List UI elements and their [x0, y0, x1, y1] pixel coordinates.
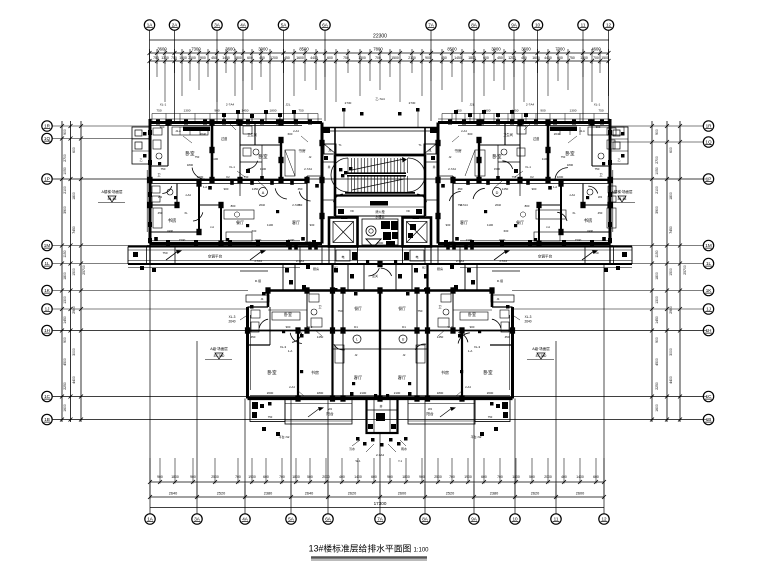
- svg-text:W4: W4: [158, 195, 163, 199]
- svg-text:1800: 1800: [437, 391, 444, 395]
- elevator left: [329, 216, 358, 247]
- svg-text:J2-A: J2-A: [579, 129, 585, 133]
- side bay (bath balcony): [132, 127, 150, 164]
- svg-text:J2: J2: [355, 353, 358, 357]
- core lower rooms: [329, 247, 431, 265]
- title underline: [311, 556, 427, 559]
- svg-text:3900: 3900: [63, 206, 67, 214]
- svg-text:1500: 1500: [179, 56, 187, 60]
- svg-text:900: 900: [286, 325, 291, 329]
- svg-text:900: 900: [655, 129, 659, 135]
- svg-text:450: 450: [458, 187, 463, 191]
- svg-text:2600: 2600: [576, 492, 584, 496]
- bottom dimension lines: [150, 482, 604, 508]
- svg-text:750: 750: [593, 251, 598, 255]
- svg-text:厨房: 厨房: [437, 266, 443, 271]
- svg-text:1-A: 1-A: [288, 349, 293, 353]
- svg-text:1P: 1P: [44, 177, 50, 182]
- svg-text:87.380: 87.380: [536, 354, 547, 358]
- left axis lines: [53, 126, 708, 420]
- svg-text:450: 450: [505, 335, 510, 339]
- top dimension texts row2: [153, 56, 609, 60]
- svg-text:XL-1: XL-1: [525, 165, 531, 169]
- svg-text:客厅: 客厅: [292, 219, 300, 225]
- svg-text:W-2: W-2: [308, 325, 313, 329]
- svg-text:2-A4: 2-A4: [465, 385, 471, 389]
- corridor walls mid-wing: [438, 176, 610, 244]
- svg-text:6A: 6A: [325, 517, 332, 522]
- wing corridor blobs: [230, 181, 294, 185]
- svg-text:风: 风: [328, 149, 331, 153]
- svg-text:7800: 7800: [373, 47, 383, 52]
- right dimension ticks and texts: [650, 124, 687, 422]
- svg-text:1A: 1A: [147, 23, 154, 28]
- mid band fixtures: [255, 265, 503, 290]
- svg-text:1K: 1K: [44, 288, 51, 293]
- svg-text:1Q: 1Q: [44, 136, 51, 141]
- svg-text:2100: 2100: [360, 391, 367, 395]
- svg-text:2-7A4: 2-7A4: [226, 103, 235, 107]
- svg-text:2700: 2700: [655, 156, 659, 164]
- lower block interior verticals: [270, 291, 462, 399]
- svg-text:450: 450: [598, 211, 603, 215]
- svg-text:K2: K2: [530, 175, 534, 179]
- svg-text:4400: 4400: [72, 376, 76, 384]
- svg-text:W4: W4: [428, 407, 433, 411]
- svg-text:1800: 1800: [63, 272, 67, 280]
- svg-text:450: 450: [158, 211, 163, 215]
- svg-text:1L: 1L: [706, 261, 712, 266]
- svg-text:2640: 2640: [305, 492, 313, 496]
- svg-text:2-7A4: 2-7A4: [526, 103, 535, 107]
- svg-text:XL: XL: [184, 211, 188, 215]
- svg-text:XL-1: XL-1: [160, 103, 167, 107]
- svg-text:800: 800: [231, 204, 236, 208]
- svg-text:1600: 1600: [296, 56, 304, 60]
- svg-text:书房: 书房: [298, 148, 306, 153]
- right dimension lines: [652, 121, 680, 422]
- scattered leader lines: [183, 136, 577, 396]
- svg-text:1500: 1500: [669, 268, 673, 276]
- svg-text:J2-A: J2-A: [175, 129, 181, 133]
- svg-text:1P: 1P: [706, 177, 712, 182]
- svg-text:书房: 书房: [168, 217, 177, 224]
- svg-text:1800: 1800: [234, 56, 242, 60]
- wing interior partitions: [150, 123, 281, 181]
- svg-text:J4: J4: [261, 297, 264, 301]
- svg-text:750: 750: [195, 155, 200, 159]
- wing doors: [449, 161, 597, 221]
- svg-text:900: 900: [214, 109, 219, 113]
- svg-text:W4: W4: [598, 195, 603, 199]
- svg-text:600: 600: [288, 132, 293, 136]
- left dimension ticks and texts: [60, 124, 86, 422]
- svg-text:1Q: 1Q: [705, 140, 712, 145]
- svg-text:1K: 1K: [706, 288, 713, 293]
- wing top mini dimension row: [152, 103, 318, 122]
- lower block doors: [259, 319, 501, 350]
- svg-text:1500: 1500: [179, 238, 186, 242]
- wing extra room dim texts: [446, 163, 603, 233]
- svg-text:XL-1: XL-1: [594, 103, 601, 107]
- svg-text:玄关: 玄关: [372, 273, 378, 278]
- svg-text:1-A: 1-A: [553, 185, 557, 189]
- svg-text:450: 450: [211, 56, 217, 60]
- svg-text:2730: 2730: [345, 101, 352, 105]
- stairwell corner door arcs: [333, 194, 426, 202]
- kitchen counter: [224, 210, 254, 241]
- svg-text:12: 12: [606, 23, 612, 28]
- svg-text:12: 12: [601, 517, 607, 522]
- svg-text:13#楼标准层给排水平面图: 13#楼标准层给排水平面图: [309, 543, 412, 554]
- svg-text:2-A4: 2-A4: [461, 129, 467, 133]
- marks below balconies: [262, 427, 498, 439]
- right lower balcony: [408, 399, 510, 425]
- bath2 fixtures: [243, 126, 259, 173]
- svg-text:1B: 1B: [706, 417, 712, 422]
- stair side fans: [331, 158, 425, 192]
- svg-text:1300: 1300: [570, 109, 577, 113]
- lower block interior horizontals: [248, 310, 513, 349]
- svg-text:J2: J2: [309, 155, 312, 159]
- misc corridor-side texts: [162, 240, 598, 255]
- lower-right level annotation: [527, 346, 554, 360]
- svg-text:3600: 3600: [157, 47, 167, 52]
- svg-text:书房: 书房: [311, 369, 319, 375]
- svg-text:卧室: 卧室: [258, 153, 268, 160]
- wing interior partitions: [479, 123, 610, 181]
- texts above core: [342, 96, 420, 127]
- svg-text:4400: 4400: [310, 56, 318, 60]
- svg-text:5A: 5A: [288, 517, 295, 522]
- pipe risers above wings: [222, 110, 528, 122]
- svg-text:卫生间: 卫生间: [503, 132, 513, 137]
- svg-text:8A: 8A: [422, 517, 429, 522]
- svg-text:2640: 2640: [524, 320, 531, 324]
- svg-text:7A: 7A: [428, 23, 435, 28]
- svg-text:2520: 2520: [446, 492, 454, 496]
- svg-text:1C: 1C: [706, 394, 713, 399]
- wing lower partitions: [150, 184, 240, 244]
- svg-text:1500: 1500: [494, 167, 501, 171]
- svg-text:卧室: 卧室: [284, 311, 292, 317]
- svg-text:4A: 4A: [240, 23, 247, 28]
- bottom dimension ticks: [148, 458, 606, 499]
- svg-text:2-7A4: 2-7A4: [304, 167, 312, 171]
- svg-text:XL-3: XL-3: [474, 345, 481, 349]
- svg-text:A级·场面层: A级·场面层: [210, 346, 228, 351]
- svg-text:2640: 2640: [169, 492, 177, 496]
- svg-text:1800: 1800: [187, 163, 194, 167]
- svg-text:3600: 3600: [225, 47, 235, 52]
- wing doors: [162, 161, 310, 221]
- svg-text:1800: 1800: [567, 163, 574, 167]
- svg-text:8500: 8500: [299, 47, 309, 52]
- svg-text:过道: 过道: [533, 136, 540, 141]
- svg-text:1050: 1050: [655, 167, 659, 175]
- svg-text:书房: 书房: [441, 369, 449, 375]
- top dimension ticks: [148, 49, 611, 64]
- svg-text:T1: T1: [418, 143, 422, 147]
- svg-text:2-7A4: 2-7A4: [448, 167, 456, 171]
- svg-text:2100: 2100: [288, 238, 295, 242]
- svg-text:1B: 1B: [44, 417, 50, 422]
- svg-text:1300: 1300: [63, 296, 67, 304]
- svg-text:750: 750: [458, 203, 463, 207]
- svg-text:2640: 2640: [228, 320, 235, 324]
- svg-text:J-A4: J-A4: [569, 193, 575, 197]
- svg-text:1450: 1450: [317, 335, 324, 339]
- svg-text:1300: 1300: [184, 109, 191, 113]
- svg-text:900: 900: [532, 187, 537, 191]
- svg-text:900: 900: [63, 129, 67, 135]
- svg-text:750: 750: [298, 109, 303, 113]
- svg-text:25700: 25700: [82, 265, 86, 275]
- core top corridor: [322, 127, 438, 155]
- svg-text:84.48: 84.48: [618, 197, 627, 201]
- mid band double entry doors: [368, 268, 391, 276]
- svg-text:厨房: 厨房: [313, 266, 319, 271]
- corridor hatch arrows and labels: [166, 241, 598, 270]
- left dimension lines: [62, 121, 81, 422]
- svg-text:XD: XD: [406, 209, 410, 213]
- axis letter circles: [259, 188, 502, 344]
- right axis bubbles: [703, 121, 713, 425]
- wardrobe closets: [153, 127, 295, 229]
- wing window mullions: [148, 119, 316, 245]
- svg-text:2A: 2A: [172, 23, 179, 28]
- lobby below stairs: [335, 201, 425, 216]
- svg-text:1450: 1450: [454, 56, 462, 60]
- svg-text:7450: 7450: [72, 226, 76, 234]
- lower bath/kitchen fixtures: [251, 294, 509, 363]
- svg-text:1450: 1450: [502, 187, 509, 191]
- svg-text:1M: 1M: [705, 243, 712, 248]
- svg-text:600: 600: [327, 56, 333, 60]
- svg-text:750: 750: [153, 56, 159, 60]
- svg-text:800: 800: [525, 204, 530, 208]
- svg-text:900: 900: [446, 223, 451, 227]
- svg-text:750: 750: [598, 109, 603, 113]
- core side shafts: [322, 155, 437, 216]
- lower block junction columns: [245, 261, 515, 402]
- bottom dimension texts: [157, 475, 599, 496]
- svg-text:1J: 1J: [45, 307, 50, 312]
- svg-text:U: U: [402, 338, 405, 342]
- svg-text:卧室: 卧室: [185, 150, 195, 157]
- svg-text:2600: 2600: [377, 241, 384, 245]
- svg-text:2-7A4: 2-7A4: [296, 259, 304, 263]
- svg-text:1800: 1800: [468, 56, 476, 60]
- right level annotation: [608, 189, 635, 203]
- wing leader marks: [154, 122, 319, 241]
- wing junction columns: [435, 119, 612, 246]
- left level annotation: [98, 189, 125, 203]
- svg-text:A级·场面层: A级·场面层: [532, 346, 550, 351]
- svg-text:乙: 乙: [139, 157, 142, 162]
- wing lower partitions: [520, 184, 610, 244]
- svg-text:D1: D1: [354, 325, 358, 329]
- svg-text:450: 450: [259, 56, 265, 60]
- svg-text:卧室: 卧室: [468, 311, 476, 317]
- svg-text:1H: 1H: [44, 328, 50, 333]
- wing leader marks: [441, 122, 606, 241]
- svg-text:3000: 3000: [669, 348, 673, 356]
- svg-text:900: 900: [425, 56, 431, 60]
- svg-text:XL-3: XL-3: [280, 345, 287, 349]
- svg-text:客厅: 客厅: [460, 219, 468, 225]
- top dimension lines: [150, 40, 610, 61]
- svg-text:750: 750: [268, 415, 273, 419]
- wing corridor blobs: [466, 181, 530, 185]
- svg-text:1L: 1L: [44, 261, 50, 266]
- svg-text:1M: 1M: [44, 243, 51, 248]
- svg-text:1800: 1800: [669, 192, 673, 200]
- bath2 fixtures: [501, 126, 526, 173]
- svg-text:750: 750: [156, 109, 161, 113]
- svg-text:客厅: 客厅: [398, 374, 406, 381]
- left axis bubbles: [42, 121, 52, 425]
- svg-text:1800: 1800: [72, 192, 76, 200]
- bottom axis bubbles: [145, 514, 609, 524]
- svg-text:750: 750: [298, 203, 303, 207]
- upper wing outer walls: [147, 119, 322, 244]
- svg-text:3900: 3900: [491, 47, 501, 52]
- svg-text:750: 750: [488, 415, 493, 419]
- svg-text:1500: 1500: [391, 56, 399, 60]
- svg-text:J2L: J2L: [470, 103, 475, 107]
- svg-text:阳台: 阳台: [326, 411, 334, 416]
- bath fixtures upper-left: [587, 128, 616, 202]
- svg-text:3A: 3A: [214, 23, 221, 28]
- svg-text:XL: XL: [572, 211, 576, 215]
- svg-text:1500: 1500: [72, 268, 76, 276]
- svg-text:2640: 2640: [200, 132, 207, 136]
- svg-text:1100: 1100: [267, 223, 273, 227]
- svg-text:750: 750: [418, 309, 423, 313]
- svg-text:600: 600: [468, 132, 473, 136]
- svg-text:XL-3: XL-3: [229, 315, 236, 319]
- svg-text:电: 电: [415, 254, 418, 259]
- svg-text:书房: 书房: [454, 148, 462, 153]
- side bay (bath balcony): [610, 127, 628, 164]
- svg-text:10: 10: [512, 517, 518, 522]
- svg-text:3200: 3200: [557, 175, 564, 179]
- svg-text:1500: 1500: [601, 56, 609, 60]
- svg-text:T1: T1: [338, 143, 342, 147]
- svg-text:4500: 4500: [63, 358, 67, 366]
- svg-text:乙: 乙: [617, 157, 620, 162]
- wing room labels: [454, 132, 603, 225]
- top axis bubbles: [144, 20, 613, 30]
- svg-text:2600: 2600: [449, 240, 456, 244]
- svg-text:3000: 3000: [72, 348, 76, 356]
- svg-text:井: 井: [433, 165, 436, 169]
- top dimension texts row1: [157, 47, 601, 52]
- svg-text:平台·N2: 平台·N2: [471, 434, 482, 439]
- svg-text:2250: 2250: [63, 382, 67, 390]
- svg-text:6A: 6A: [322, 23, 329, 28]
- svg-text:卧室: 卧室: [483, 369, 493, 376]
- svg-text:W-2: W-2: [448, 325, 453, 329]
- svg-text:2400: 2400: [167, 229, 174, 233]
- svg-text:J-A: J-A: [210, 225, 214, 229]
- svg-text:450: 450: [497, 56, 503, 60]
- lower-left level annotation: [205, 346, 232, 360]
- svg-text:750: 750: [161, 167, 166, 171]
- svg-text:1300: 1300: [580, 56, 588, 60]
- svg-text:空调平台: 空调平台: [208, 254, 223, 259]
- svg-text:J-7A4: J-7A4: [254, 259, 262, 263]
- svg-text:1450: 1450: [252, 187, 259, 191]
- svg-text:1100: 1100: [487, 223, 493, 227]
- svg-text:1J: 1J: [706, 307, 711, 312]
- svg-text:8A: 8A: [471, 23, 478, 28]
- svg-text:过道: 过道: [221, 136, 228, 141]
- svg-text:7300: 7300: [555, 47, 565, 52]
- lower block room labels: [267, 305, 493, 381]
- svg-text:1450: 1450: [655, 316, 659, 324]
- svg-text:9A: 9A: [471, 517, 478, 522]
- svg-text:8500: 8500: [447, 47, 457, 52]
- svg-text:R·级: R·级: [255, 278, 261, 283]
- svg-text:2900: 2900: [72, 306, 76, 314]
- center bottom shaft: [367, 399, 398, 434]
- svg-text:J-A4: J-A4: [185, 193, 191, 197]
- extra small blobs: [158, 162, 605, 397]
- svg-text:2100: 2100: [63, 186, 67, 194]
- svg-text:900: 900: [655, 337, 659, 343]
- svg-text:污水: 污水: [349, 446, 355, 451]
- svg-text:2640: 2640: [259, 203, 265, 207]
- svg-text:井: 井: [379, 404, 382, 409]
- svg-text:卧室: 卧室: [565, 150, 575, 157]
- svg-text:3600: 3600: [521, 47, 531, 52]
- wing window mullions: [444, 119, 612, 245]
- wing junction columns: [147, 119, 324, 246]
- svg-text:11: 11: [554, 517, 559, 522]
- svg-text:1500: 1500: [575, 238, 582, 242]
- svg-text:XD: XD: [350, 209, 354, 213]
- kitchen counter: [520, 210, 566, 241]
- svg-text:Y-1: Y-1: [398, 459, 403, 463]
- svg-text:2-A4: 2-A4: [293, 129, 299, 133]
- svg-text:A楼梯·场面层: A楼梯·场面层: [102, 189, 123, 194]
- svg-text:J-A: J-A: [546, 225, 550, 229]
- svg-text:水暖井: 水暖井: [375, 214, 385, 219]
- svg-text:1800: 1800: [317, 391, 324, 395]
- svg-text:1050: 1050: [63, 167, 67, 175]
- svg-text:2700: 2700: [63, 154, 67, 162]
- svg-text:2600: 2600: [487, 391, 494, 395]
- svg-text:1-A: 1-A: [468, 349, 473, 353]
- svg-text:2380: 2380: [490, 492, 498, 496]
- svg-text:餐厅: 餐厅: [236, 219, 244, 225]
- svg-text:1450: 1450: [63, 316, 67, 324]
- svg-text:雨水: 雨水: [401, 446, 407, 451]
- svg-text:A楼梯·场面层: A楼梯·场面层: [612, 189, 633, 194]
- XL annotations at sides: [228, 315, 531, 324]
- svg-text:XL-1: XL-1: [229, 165, 235, 169]
- svg-text:4500: 4500: [655, 358, 659, 366]
- wardrobe closets: [465, 127, 624, 229]
- mid band walls: [240, 264, 520, 307]
- top axis lines: [150, 31, 609, 122]
- svg-text:乙-7A4: 乙-7A4: [375, 96, 385, 101]
- left lower balcony: [250, 399, 352, 425]
- svg-text:1H: 1H: [706, 328, 712, 333]
- svg-text:450: 450: [251, 335, 256, 339]
